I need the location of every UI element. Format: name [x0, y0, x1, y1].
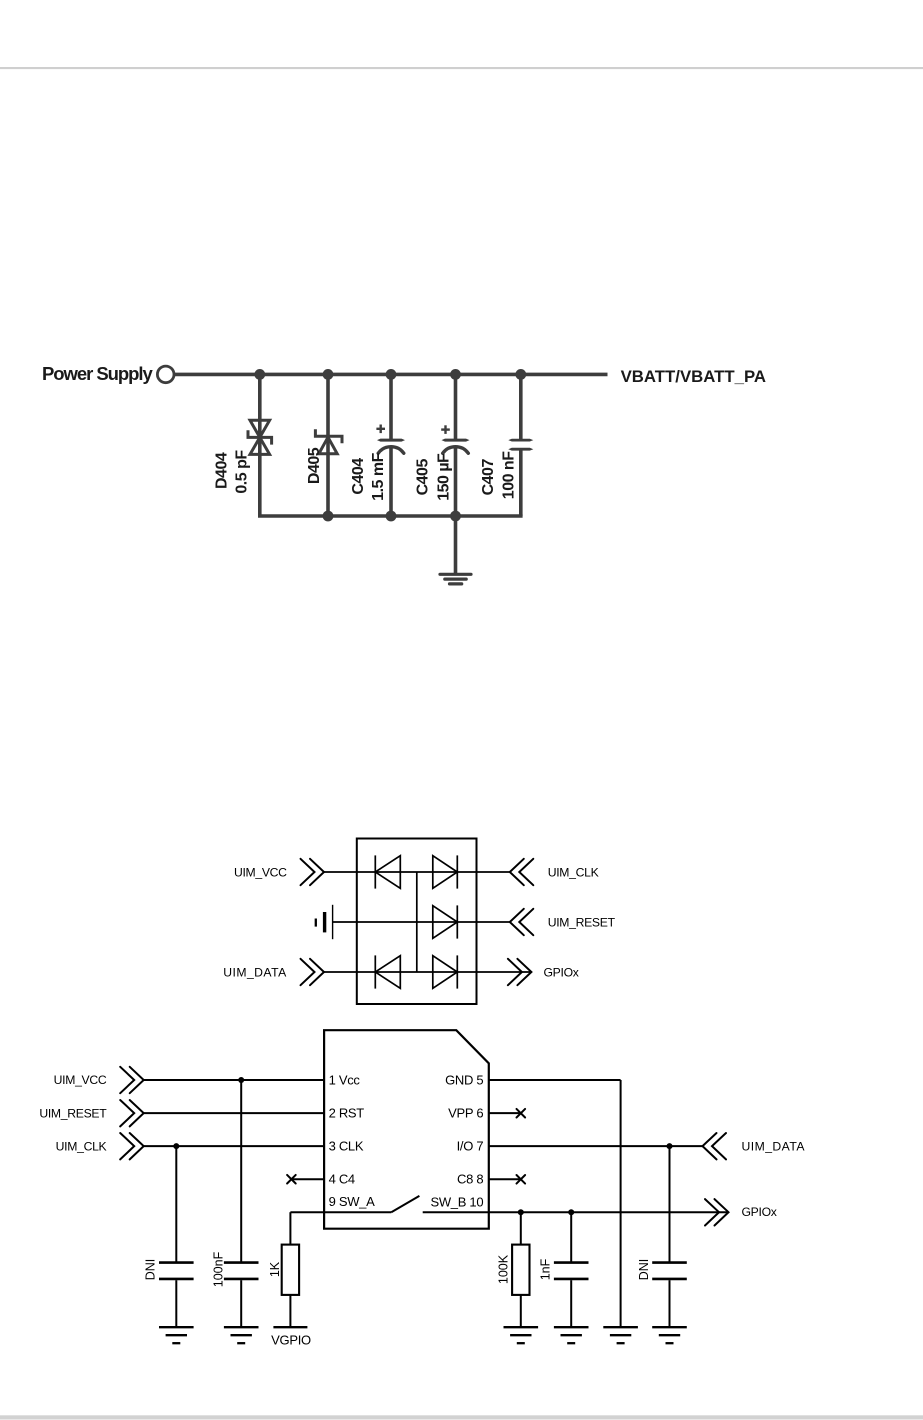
- svg-text:0.5 pF: 0.5 pF: [234, 450, 251, 494]
- svg-text:GPIOx: GPIOx: [742, 1205, 777, 1219]
- svg-text:D404: D404: [214, 452, 231, 489]
- svg-text:1K: 1K: [268, 1261, 282, 1277]
- svg-text:VPP 6: VPP 6: [448, 1106, 483, 1121]
- svg-text:C404: C404: [350, 458, 367, 495]
- svg-text:UIM_RESET: UIM_RESET: [39, 1106, 107, 1120]
- svg-text:UIM_RESET: UIM_RESET: [548, 915, 616, 929]
- svg-text:DNI: DNI: [637, 1259, 651, 1281]
- svg-text:UIM_DATA: UIM_DATA: [742, 1139, 806, 1153]
- svg-text:2 RST: 2 RST: [329, 1106, 365, 1121]
- svg-text:150 µF: 150 µF: [436, 453, 453, 501]
- svg-text:C407: C407: [480, 459, 497, 496]
- svg-text:C405: C405: [414, 459, 431, 496]
- svg-text:VBATT/VBATT_PA: VBATT/VBATT_PA: [621, 367, 766, 386]
- svg-text:100 nF: 100 nF: [501, 451, 518, 499]
- svg-text:UIM_DATA: UIM_DATA: [223, 965, 287, 979]
- svg-text:GND 5: GND 5: [445, 1072, 483, 1087]
- svg-text:100nF: 100nF: [211, 1251, 225, 1287]
- svg-text:UIM_VCC: UIM_VCC: [234, 865, 287, 879]
- svg-text:1 Vcc: 1 Vcc: [329, 1072, 361, 1087]
- svg-text:1nF: 1nF: [539, 1258, 553, 1280]
- svg-text:I/O 7: I/O 7: [457, 1139, 484, 1154]
- svg-text:SW_B 10: SW_B 10: [430, 1195, 483, 1210]
- svg-text:C8 8: C8 8: [457, 1172, 483, 1187]
- svg-text:4 C4: 4 C4: [329, 1172, 355, 1187]
- svg-text:3 CLK: 3 CLK: [329, 1139, 364, 1154]
- svg-text:9 SW_A: 9 SW_A: [329, 1194, 376, 1209]
- svg-text:DNI: DNI: [143, 1259, 157, 1281]
- svg-text:UIM_VCC: UIM_VCC: [54, 1073, 107, 1087]
- svg-text:UIM_CLK: UIM_CLK: [548, 865, 599, 879]
- svg-text:UIM_CLK: UIM_CLK: [56, 1139, 107, 1153]
- svg-text:VGPIO: VGPIO: [271, 1333, 311, 1348]
- svg-text:D405: D405: [306, 447, 323, 484]
- svg-text:1.5 mF: 1.5 mF: [370, 452, 387, 500]
- svg-text:Power Supply: Power Supply: [42, 363, 153, 384]
- svg-text:GPIOx: GPIOx: [544, 965, 579, 979]
- svg-text:100K: 100K: [496, 1254, 510, 1284]
